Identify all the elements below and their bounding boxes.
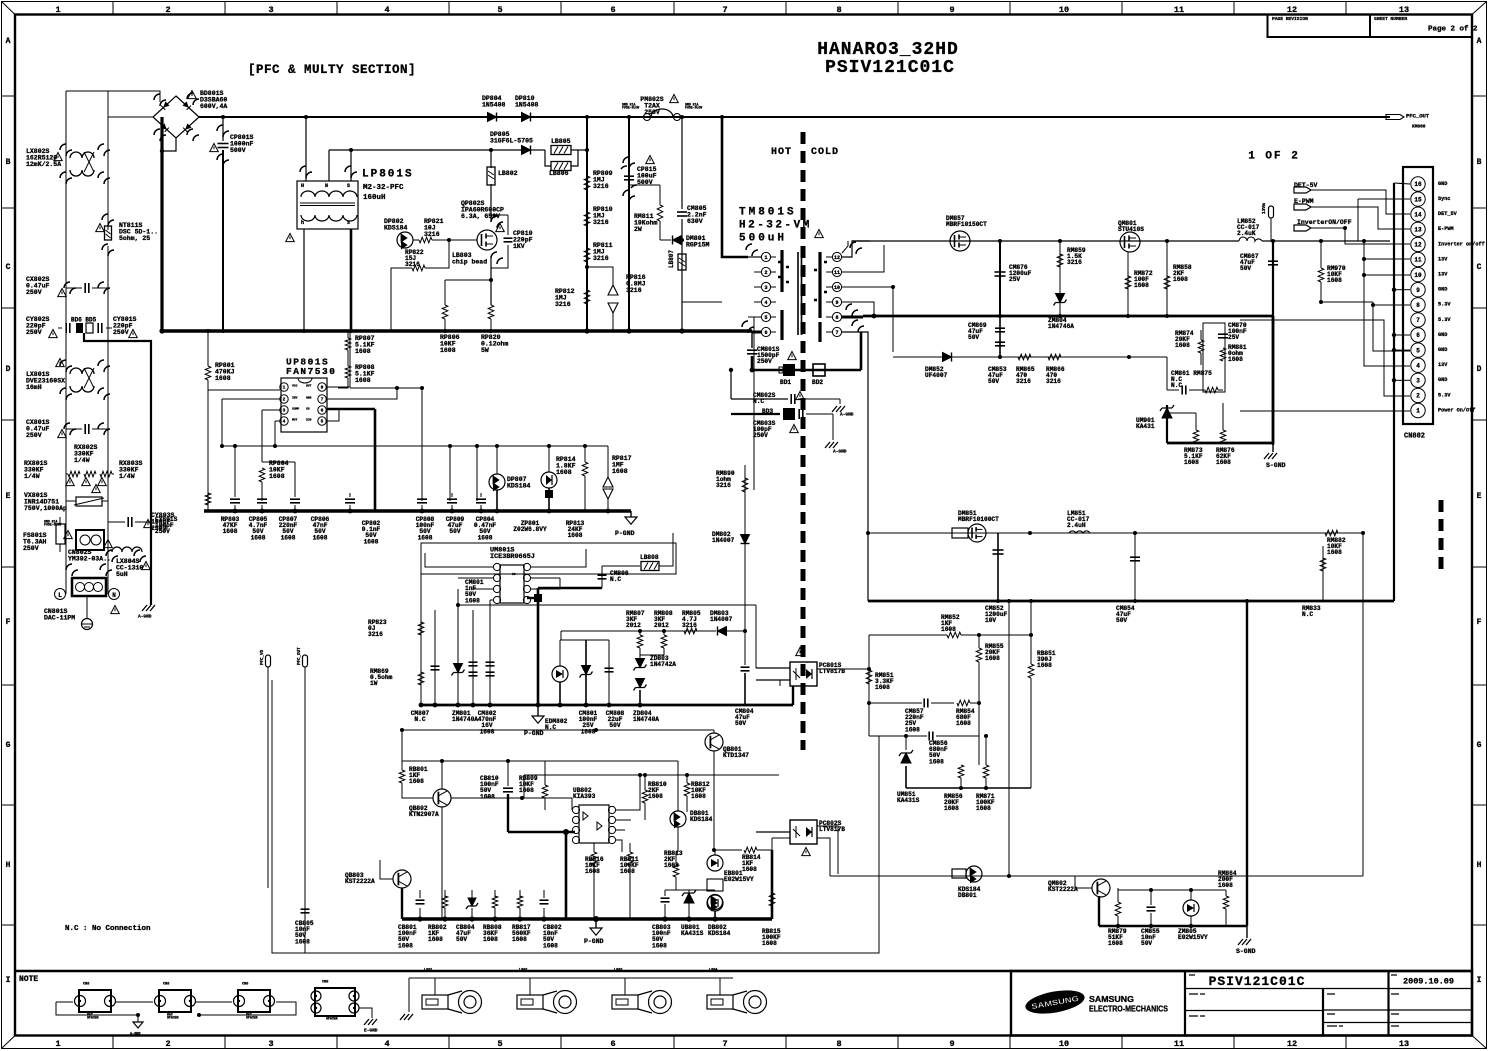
wire TM801S pin6 thick: [752, 331, 761, 334]
box UM801S outline: [421, 543, 676, 574]
LED EDM802: [552, 666, 568, 682]
wire UB802 pin wires: [522, 798, 572, 810]
svg-text:TM801S: TM801S: [739, 207, 797, 219]
capacitor CP815: [624, 175, 634, 177]
wire y631 snubber row: [561, 630, 716, 632]
note strip line: [15, 970, 1472, 972]
ground A-GND tm2: [825, 442, 838, 448]
resistor RP807: [345, 338, 351, 350]
resistor RP809: [584, 176, 590, 190]
svg-text:SPACER: SPACER: [326, 1017, 338, 1021]
resistor RP803: [205, 493, 211, 505]
resistor RM855: [978, 635, 980, 648]
resistor RP808: [345, 366, 351, 378]
wire UM801S top loop: [424, 543, 426, 553]
svg-text:E: E: [1477, 492, 1482, 501]
svg-text:4: 4: [1416, 362, 1420, 369]
svg-text:7: 7: [1416, 317, 1420, 324]
svg-text:PSIV121C01C: PSIV121C01C: [825, 58, 955, 78]
svg-text:6: 6: [764, 330, 767, 336]
wire secondary bottom bus: [868, 600, 1394, 603]
flag DET-5V: [1294, 187, 1311, 193]
wire y605 opto line: [458, 604, 756, 606]
svg-text:5: 5: [497, 1039, 502, 1049]
svg-text:LB806: LB806: [549, 170, 569, 177]
svg-text:CP8020.1nF50V1608: CP8020.1nF50V1608: [362, 520, 381, 546]
resistor RM866: [1048, 354, 1061, 360]
svg-text:A-GND: A-GND: [840, 412, 854, 418]
capacitor CP810: [504, 237, 513, 239]
wire second bus PFC drive: [329, 149, 521, 151]
svg-text:A: A: [6, 37, 11, 46]
svg-text:DET_5V: DET_5V: [1438, 211, 1458, 217]
capacitor CM808 col: [608, 640, 610, 705]
resistor RM865: [1018, 354, 1031, 360]
svg-text:BD3: BD3: [762, 408, 773, 415]
ground S-GND secondary: [1272, 443, 1274, 452]
svg-text:ZCD: ZCD: [306, 418, 312, 421]
wire connector4 ground: [359, 1008, 372, 1018]
svg-text:6: 6: [610, 1039, 615, 1049]
thermistor NT811S: [105, 226, 112, 240]
svg-text:500uH: 500uH: [739, 233, 787, 245]
svg-text:7: 7: [321, 397, 324, 403]
wire pin2 long: [1240, 320, 1410, 396]
transformer TM801S: [798, 252, 802, 335]
svg-text:12: 12: [834, 255, 840, 261]
component row under UM801S: [420, 574, 422, 705]
wire TM801S pin1 top: [748, 256, 761, 258]
svg-text:9: 9: [1416, 287, 1420, 294]
choke LX802S: [70, 152, 94, 176]
ground bottom strip: [137, 1015, 139, 1022]
wire y730 top row: [402, 729, 714, 731]
IC UM801S: [500, 565, 524, 603]
svg-text:L: L: [58, 592, 62, 599]
resistor RB816: [591, 852, 597, 865]
zener ZP801: [541, 472, 557, 488]
title block box: [1011, 971, 1472, 1036]
svg-text:L802: L802: [519, 969, 527, 973]
wire LP801S bottom pins: [303, 229, 305, 331]
resistor RP821: [419, 237, 432, 243]
svg-text:GND: GND: [306, 396, 312, 399]
wire main top bus PFC: [199, 116, 1390, 118]
wire cap row top connect: [420, 889, 544, 891]
svg-text:B: B: [6, 158, 11, 167]
flag E-PWM: [1294, 204, 1311, 210]
svg-text:7: 7: [722, 5, 727, 15]
IC UP801S FAN7530: [281, 378, 327, 432]
box control section outline: [272, 680, 879, 953]
svg-text:OUT: OUT: [306, 384, 312, 387]
svg-text:Sync: Sync: [1438, 196, 1450, 202]
fuse PM802S: [644, 114, 651, 121]
svg-text:12: 12: [1287, 1039, 1297, 1049]
wire y761 row: [402, 760, 678, 762]
svg-text:GND: GND: [1438, 287, 1447, 293]
bead LB805: [551, 146, 571, 155]
ground CN801S earth: [86, 596, 88, 618]
svg-text:CN802: CN802: [1404, 433, 1425, 441]
ground P-GND pfc: [630, 511, 632, 517]
svg-text:MOT: MOT: [292, 418, 298, 421]
svg-text:F: F: [1477, 618, 1482, 627]
resistor RM811: [657, 205, 663, 221]
transistor KDS184 DB801 sec: [952, 869, 966, 878]
svg-text:ELECTRO-MECHANICS: ELECTRO-MECHANICS: [1089, 1004, 1168, 1014]
capacitor CM870: [1218, 333, 1228, 335]
svg-text:Power On/Off: Power On/Off: [1438, 407, 1475, 413]
svg-text:N: N: [325, 183, 328, 189]
capacitor col x490: [489, 600, 491, 705]
svg-text:10: 10: [1059, 1039, 1069, 1049]
wire sec pin12 up to rail: [842, 241, 870, 257]
svg-text:KM800: KM800: [1412, 124, 1426, 130]
svg-text:LB805: LB805: [551, 138, 571, 145]
svg-text:H: H: [301, 183, 304, 189]
inductor LM851: [1069, 531, 1090, 533]
svg-text:PSIV121C01C: PSIV121C01C: [1209, 974, 1306, 989]
resistor RM864: [1225, 890, 1227, 896]
svg-text:LP801S: LP801S: [362, 169, 414, 181]
svg-text:S-GND: S-GND: [1266, 462, 1286, 469]
bridge rectifier BD801S: [153, 96, 199, 138]
page revision / sheet number boxes: [1268, 15, 1371, 38]
wire sec pin9: [842, 302, 874, 316]
wire CM867 column: [1272, 241, 1274, 445]
svg-text:L804: L804: [709, 969, 717, 973]
connector bottom 2: [159, 990, 191, 1012]
resistor RM856: [958, 765, 964, 778]
svg-text:Inverter on/off: Inverter on/off: [1438, 241, 1485, 247]
wire Inverter to pin12: [1311, 228, 1410, 244]
key connector 4: [707, 995, 733, 1009]
transistor QM802: [1092, 879, 1110, 897]
svg-text:6: 6: [1416, 332, 1420, 339]
wire sec pin7: [842, 332, 868, 601]
svg-text:L803: L803: [614, 969, 622, 973]
svg-text:CP80647nF50V1608: CP80647nF50V1608: [311, 516, 330, 542]
LED ZM805: [1183, 900, 1199, 916]
LED EB801 pair: [707, 855, 723, 871]
wire RM858 column: [1166, 241, 1168, 316]
diode DP805: [522, 146, 531, 155]
resistor RM872: [1125, 276, 1131, 289]
svg-text:I: I: [1477, 976, 1482, 985]
fuse FS801S: [56, 524, 65, 544]
wire bottom connectors: [56, 1001, 73, 1003]
svg-text:3: 3: [764, 285, 767, 291]
capacitor CB805: [304, 903, 306, 907]
resistor RP810: [584, 212, 590, 226]
bead LB802: [487, 167, 495, 185]
bead LB808: [641, 562, 659, 571]
capacitor CM854: [1134, 533, 1136, 601]
capacitor CX802S: [84, 283, 86, 293]
svg-text:BD1: BD1: [780, 379, 791, 386]
transistor QB801: [705, 733, 723, 751]
svg-text:P-GND: P-GND: [584, 938, 604, 945]
svg-text:BD6 BD5: BD6 BD5: [71, 317, 97, 324]
capacitor CM857 / resistor RM854: [869, 702, 922, 704]
transistor QB803: [393, 870, 411, 888]
svg-text:LB807: LB807: [668, 250, 675, 268]
wire y890 row: [665, 889, 715, 891]
capacitor CM861: [1181, 386, 1183, 395]
connector CN801S: [72, 578, 106, 596]
diode DM801: [673, 236, 682, 245]
svg-text:GND: GND: [1438, 377, 1447, 383]
svg-text:7: 7: [835, 330, 838, 336]
svg-text:G: G: [6, 741, 11, 750]
capacitor CM869: [999, 316, 1001, 356]
svg-text:E-PWM: E-PWM: [1438, 226, 1454, 232]
relay CN802S: [76, 530, 104, 550]
svg-text:LB802: LB802: [498, 170, 518, 177]
svg-text:s: s: [347, 220, 350, 226]
svg-text:SAMSUNG: SAMSUNG: [1089, 994, 1134, 1004]
resistor RM873: [1195, 413, 1197, 430]
svg-text:8: 8: [836, 1039, 841, 1049]
ground P-GND um: [537, 705, 539, 716]
wire thick gate drive: [327, 408, 375, 411]
wire x1364 rail: [1364, 241, 1410, 366]
varistor VX801S: [76, 497, 102, 506]
connector bottom 3: [238, 990, 270, 1012]
resistor RP804: [259, 468, 265, 482]
svg-text:CM802470nF16V1608: CM802470nF16V1608: [478, 710, 497, 736]
svg-text:HANARO3_32HD: HANARO3_32HD: [817, 40, 959, 60]
shunt UM901 KA431: [1160, 405, 1174, 418]
wire TM801S pin2-5 stubs: [754, 271, 761, 273]
wire main thick primary ground bus: [162, 329, 752, 333]
svg-text:A: A: [1477, 37, 1482, 46]
svg-text:8: 8: [321, 385, 324, 391]
capacitor CB810: [507, 761, 509, 786]
resistor RM871: [983, 765, 989, 778]
wire thick drive UB802: [507, 794, 509, 832]
svg-text:SHEET NUMBER: SHEET NUMBER: [1374, 16, 1407, 22]
wire LP801S top pins: [305, 117, 307, 181]
connector bottom 1: [79, 990, 111, 1012]
resistor RM858: [1164, 276, 1170, 289]
svg-text:NOTE: NOTE: [19, 975, 38, 984]
wire RP816 branch: [587, 267, 613, 285]
wire PFC bottom bus: [204, 509, 631, 513]
optocoupler PC802S: [790, 820, 817, 844]
wire CM876 column: [999, 241, 1001, 316]
flag 13Vm: [1269, 206, 1274, 218]
choke LX801S: [70, 368, 94, 392]
transistor QB802: [433, 789, 451, 807]
svg-text:UM901KA431: UM901KA431: [1136, 417, 1155, 430]
key connector 3: [612, 995, 638, 1009]
wire left rail: [65, 91, 67, 594]
wire DM851 rail: [868, 532, 1363, 534]
transistor QM801: [1120, 232, 1140, 252]
capacitor CP801S: [222, 117, 224, 141]
svg-text:A-GND: A-GND: [138, 614, 152, 620]
wire QM802 emitter thick: [1098, 896, 1100, 926]
svg-text:13V: 13V: [1438, 362, 1448, 368]
svg-text:P-GND: P-GND: [524, 730, 544, 737]
svg-text:9: 9: [949, 5, 954, 15]
wire S-GND drop: [1246, 601, 1248, 926]
wire right cn bus lower: [1393, 445, 1395, 601]
svg-text:IC: IC: [512, 573, 516, 576]
svg-text:5: 5: [321, 419, 324, 425]
wire right rail: [107, 91, 109, 230]
svg-text:CP807220nF50V1608: CP807220nF50V1608: [279, 516, 298, 542]
frame row ticks and letters: [2, 95, 1486, 97]
shunt UB801: [682, 890, 696, 903]
resistor RM876: [1222, 403, 1224, 430]
svg-text:10: 10: [1059, 5, 1069, 15]
svg-text:PFC_VD: PFC_VD: [261, 649, 265, 665]
resistor RB811: [627, 852, 633, 865]
svg-text:D: D: [6, 365, 11, 374]
title block dashes: [1189, 975, 1399, 1026]
wire vertical CP815 column: [628, 117, 630, 331]
ground key rail: [400, 1014, 413, 1020]
svg-text:1: 1: [764, 255, 767, 261]
resistor RM875: [1205, 387, 1218, 393]
svg-text:A-GND: A-GND: [833, 449, 847, 455]
sub box CM870 RM881: [1203, 323, 1225, 392]
capacitor row CP805 CP807 CP806 CP802: [234, 493, 236, 497]
svg-text:10: 10: [1414, 272, 1422, 279]
svg-text:5.3V: 5.3V: [1438, 302, 1451, 308]
svg-text:5.3V: 5.3V: [1438, 392, 1451, 398]
samsung logo: [1024, 986, 1087, 1017]
wire x1373 to pins: [1373, 302, 1410, 351]
capacitor CY802S with beads BD6 BD5: [65, 323, 67, 333]
wire PC802S out: [817, 826, 838, 874]
wire RB851 column: [1030, 601, 1032, 664]
zener ZM801: [457, 589, 459, 705]
wire QP source down: [490, 258, 492, 305]
capacitor CM804: [741, 666, 750, 668]
IC UB802: [579, 805, 609, 843]
wire pin15 sync: [1358, 198, 1410, 200]
diode DM802 column: [744, 465, 746, 534]
transistor DB802: [708, 895, 723, 910]
diode DP804: [488, 113, 497, 122]
svg-text:14: 14: [1414, 211, 1422, 218]
svg-text:CN8: CN8: [322, 981, 328, 985]
svg-text:[PFC & MULTY SECTION]: [PFC & MULTY SECTION]: [248, 63, 416, 77]
diode DP810: [522, 113, 531, 122]
wire sec pin11: [842, 245, 884, 272]
svg-text:5: 5: [764, 315, 767, 321]
transformer LP801S: [297, 181, 358, 229]
capacitor CM802 col: [472, 610, 474, 705]
resistor RM890: [742, 478, 748, 492]
capacitor CM876: [995, 271, 1006, 273]
ground A-GND left: [142, 605, 155, 611]
wire bridge bottom to left bus: [162, 138, 176, 151]
connector bottom 4: [315, 988, 355, 1016]
svg-text:2: 2: [165, 5, 170, 15]
wire x1009 drop: [1008, 601, 1010, 876]
svg-text:3: 3: [268, 1039, 273, 1049]
resistor RP806: [442, 305, 448, 319]
svg-text:11: 11: [1174, 1039, 1184, 1049]
svg-text:DET-5V: DET-5V: [1294, 182, 1318, 189]
wire flag drops: [267, 667, 269, 888]
inductor LM852: [1239, 237, 1262, 241]
zener ZD804: [585, 640, 587, 705]
svg-text:M2-32-PFC: M2-32-PFC: [363, 184, 404, 192]
capacitor CM805: [677, 211, 687, 213]
capacitor CM801S: [751, 332, 753, 348]
transistor DP802: [397, 232, 413, 248]
wire CM807 column: [434, 610, 436, 705]
node bridge left: [160, 149, 164, 153]
svg-text:9: 9: [835, 300, 838, 306]
capacitor CM806 LB808: [601, 566, 603, 588]
svg-text:13V: 13V: [1438, 272, 1448, 278]
svg-text:10: 10: [834, 285, 840, 291]
svg-text:GND: GND: [1438, 332, 1447, 338]
wire PC801S right network: [817, 668, 869, 670]
svg-text:13: 13: [1414, 226, 1422, 233]
wire thick PFC negative vertical: [160, 117, 163, 331]
svg-text:RP81324KF1608: RP81324KF1608: [566, 520, 585, 539]
svg-text:P-GND: P-GND: [615, 530, 635, 537]
svg-text:2: 2: [1416, 393, 1420, 400]
svg-text:HOT: HOT: [771, 147, 792, 158]
wire RM872 column: [1127, 252, 1129, 316]
wire inverter branch down: [1321, 301, 1373, 303]
resistor RB801: [401, 761, 403, 770]
wire input top: [66, 91, 160, 102]
wire y390 nc row: [1166, 357, 1168, 390]
resistor RM807: [639, 631, 641, 635]
resistors RX802S RX801S RX803S: [68, 471, 80, 477]
resistor RM879: [1117, 916, 1119, 926]
svg-text:RP80347KF1608: RP80347KF1608: [221, 516, 240, 535]
optocoupler PC801S: [790, 662, 817, 686]
svg-text:A-GND: A-GND: [130, 1033, 141, 1037]
svg-text:CN8: CN8: [163, 983, 169, 987]
wire UP801S right pins: [326, 331, 350, 387]
resistor RM970: [1320, 241, 1322, 268]
svg-text:GND: GND: [1438, 181, 1447, 187]
svg-text:H: H: [1477, 861, 1482, 870]
diode DM852: [943, 353, 952, 362]
svg-text:4: 4: [384, 5, 389, 15]
resistor RM874: [1198, 340, 1204, 353]
svg-text:L801: L801: [424, 969, 432, 973]
bead LB807: [678, 254, 686, 270]
svg-text:8: 8: [835, 315, 838, 321]
svg-text:B: B: [1477, 158, 1482, 167]
svg-text:11: 11: [1414, 257, 1422, 264]
wire secondary top rail: [852, 240, 1239, 242]
svg-text:4: 4: [764, 300, 767, 306]
wire y446 row: [222, 445, 608, 447]
wire PC802S network: [756, 831, 790, 833]
inductor LX804S: [112, 547, 142, 552]
transistor DM851: [952, 528, 968, 538]
diode DM802: [741, 535, 750, 544]
svg-text:1: 1: [1416, 408, 1420, 415]
wire sec pin8 thick to bus: [842, 316, 863, 319]
capacitor CY803S: [127, 517, 129, 527]
varistor RP817 symbol: [603, 477, 613, 499]
